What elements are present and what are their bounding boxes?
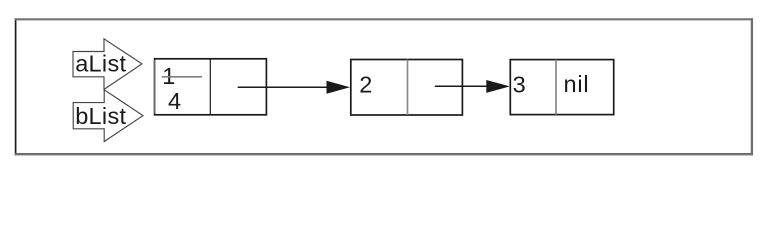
svg-text:aList: aList bbox=[75, 51, 126, 77]
svg-text:bList: bList bbox=[75, 103, 126, 129]
svg-text:nil: nil bbox=[564, 71, 590, 97]
svg-text:2: 2 bbox=[359, 72, 372, 98]
svg-text:4: 4 bbox=[168, 88, 181, 114]
svg-text:3: 3 bbox=[513, 72, 526, 98]
